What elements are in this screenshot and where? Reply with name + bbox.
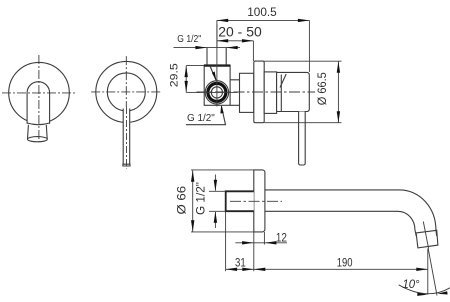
bottom view: inlet pipe — [226, 191, 254, 211]
mixer side view: side port outer circle — [205, 81, 228, 104]
mixer side view: side port inner circle — [211, 87, 222, 98]
mixer side view: cartridge housing — [240, 73, 254, 112]
dim 100.5: dimension line — [217, 19, 310, 21]
dim 100.5: left arrow — [217, 19, 229, 22]
dim G1/2 top: dimension line under label — [174, 47, 241, 49]
handle front view: horizontal centerline — [91, 91, 162, 93]
mixer side view: main horizontal centerline — [197, 91, 316, 93]
dim 20-50: right extension line — [252, 41, 254, 61]
handle front view: outer circle — [96, 61, 157, 122]
dim 100.5: right arrow — [298, 19, 310, 22]
mixer side view: valve block — [204, 65, 230, 105]
dim 31: right arrow — [242, 268, 254, 271]
handle front view: inner circle — [107, 73, 145, 111]
dim dia66: dimension line — [192, 170, 194, 232]
dim 29.5: bottom extension line — [186, 91, 200, 93]
spout front view: horizontal centerline — [2, 92, 76, 94]
svg-text:G 1/2": G 1/2" — [194, 182, 207, 215]
mixer side view: side port threaded ring — [208, 83, 226, 101]
dim G1/2 bottom view: extension lines — [209, 191, 226, 211]
handle front view: vertical centerline — [125, 56, 127, 107]
dim 190: right arrow — [416, 268, 428, 271]
svg-text:29.5: 29.5 — [168, 63, 180, 87]
svg-text:G 1/2": G 1/2" — [187, 112, 215, 124]
bottom view: tube centerline — [230, 200, 282, 202]
dim 29.5: dimension line — [185, 66, 187, 93]
spout front view: vertical centerline — [38, 55, 40, 142]
mixer side view: valve block thick top edge — [204, 64, 231, 66]
svg-text:31: 31 — [235, 255, 246, 269]
dim 10deg: arc — [399, 285, 450, 294]
spout front view: spout tube body — [27, 82, 49, 124]
spout front view: tube step joint — [27, 123, 49, 125]
svg-text:10°: 10° — [402, 277, 419, 291]
svg-text:190: 190 — [337, 255, 353, 269]
mixer side view: inlet pipe — [207, 48, 226, 65]
dim 31/190: left extension line — [225, 212, 227, 271]
mixer side view: handle neck — [264, 72, 276, 114]
svg-text:G 1/2": G 1/2" — [177, 33, 201, 45]
dim 12: right extension line — [263, 232, 265, 245]
dim 10deg: arc left arrow — [417, 293, 427, 296]
dim 100.5: left extension line — [216, 20, 218, 47]
leader G1/2 top to port — [210, 66, 216, 80]
dim 12: dimension line — [235, 242, 287, 244]
dim dia66: bottom arrow — [191, 220, 194, 232]
dim dia66.5: bottom arrow — [337, 111, 340, 123]
bottom view: tilted end centerline — [423, 222, 428, 249]
spout front view: outlet tube — [28, 125, 48, 139]
spout front view: wall flange circle — [9, 62, 70, 123]
mixer side view: pipe/port vertical centerline — [216, 24, 218, 107]
mixer side view: handle dome — [277, 72, 310, 111]
handle front view: lever centerline — [125, 107, 127, 169]
dim dia66.5: top extension line — [264, 60, 341, 62]
dim 12: left arrow — [242, 241, 254, 244]
dim G1/2 top: right arrow — [226, 46, 238, 49]
dim 20-50: dimension line — [217, 40, 254, 42]
handle front view: lever end cap — [123, 164, 130, 166]
svg-text:100.5: 100.5 — [247, 5, 277, 19]
mixer side view: dome cone line — [280, 74, 286, 88]
dim 31: left arrow — [226, 268, 238, 271]
dim G1/2 bottom view: lower segment with arrow — [214, 212, 216, 228]
mixer side view: lever bar — [299, 112, 306, 166]
svg-text:20 - 50: 20 - 50 — [218, 25, 261, 40]
svg-text:12: 12 — [276, 231, 287, 245]
dim dia66: top arrow — [191, 170, 194, 182]
dim dia66.5: top arrow — [337, 61, 340, 73]
bottom view: aerator joint line — [416, 230, 437, 233]
mixer side view: rear connector — [230, 80, 239, 106]
bottom view: wall flange — [254, 170, 265, 232]
handle front view: lever bar — [123, 108, 130, 164]
mixer side view: port horizontal centerline — [197, 91, 238, 93]
leader G1/2 bottom label — [186, 106, 226, 125]
svg-text:Ø 66.5: Ø 66.5 — [315, 72, 329, 105]
dim 10deg: arc right arrow — [437, 291, 447, 294]
bottom view: outlet piece — [416, 230, 438, 248]
dim dia66: top extension line — [191, 169, 254, 171]
svg-text:Ø 66: Ø 66 — [174, 185, 188, 214]
bottom view: spout tube top edge — [265, 190, 437, 236]
dim 20-50: right arrow — [242, 39, 254, 42]
dim dia66: bottom extension line — [191, 231, 254, 233]
mixer side view: dome inner ring line — [280, 75, 282, 112]
dim G1/2 bottom view: upper segment with arrow — [214, 175, 216, 191]
dim dia66.5: bottom extension line — [264, 122, 341, 124]
dim 31/190: middle extension line — [253, 232, 255, 271]
dim 29.5: bottom arrow — [185, 81, 188, 93]
dim 10deg: vertical reference line — [427, 249, 429, 295]
dim dia66.5: dimension line — [337, 61, 339, 122]
dim 29.5: top extension line — [186, 65, 204, 67]
dim 20-50: left arrow — [217, 39, 229, 42]
spout front view: outlet ellipse — [28, 137, 48, 142]
dim G1/2 top: left arrow — [195, 46, 207, 49]
bottom view: spout tube bottom edge — [265, 211, 416, 236]
dim 29.5: top arrow — [185, 66, 188, 78]
dim 10deg: tilted line — [428, 249, 437, 296]
dim 100.5: right extension line — [308, 20, 310, 72]
dim 31/190: shared dimension line — [226, 268, 428, 270]
dim 12: right arrow — [265, 241, 277, 244]
dim 190: left arrow — [254, 268, 265, 271]
mixer side view: wall flange — [254, 61, 264, 123]
